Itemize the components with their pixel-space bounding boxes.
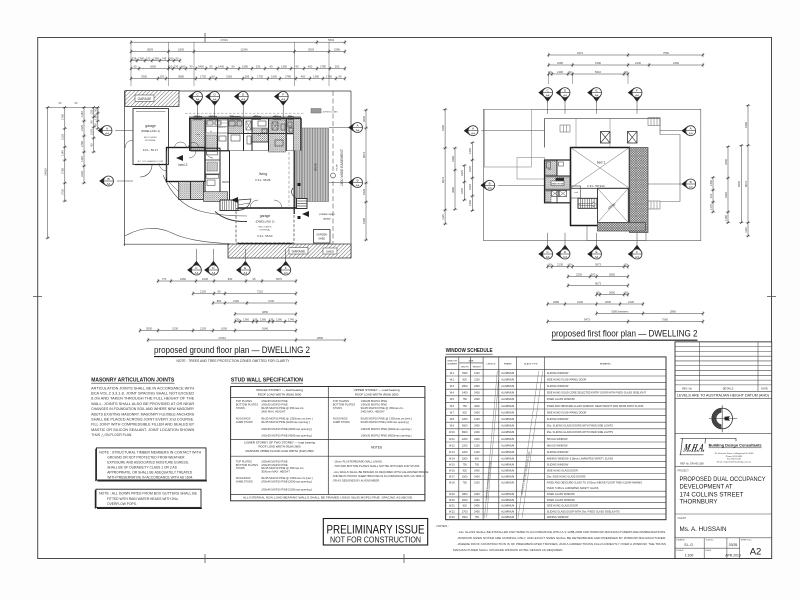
svg-text:OR AS DESIGNED BY AN ENGINEER.: OR AS DESIGNED BY AN ENGINEER.	[333, 478, 380, 482]
dimension line	[63, 106, 67, 202]
svg-text:90: 90	[569, 70, 572, 74]
svg-text:STUDS: STUDS	[236, 466, 245, 470]
svg-text:ALUMINIUM: ALUMINIUM	[501, 438, 514, 441]
svg-text:11340: 11340	[240, 47, 248, 51]
dimension line	[547, 53, 704, 57]
svg-text:MANUFACTURER SHALL UPGRADE WIN: MANUFACTURER SHALL UPGRADE WINDOW LINTEL…	[453, 548, 563, 552]
ground floor plan group	[44, 38, 369, 342]
svg-text:W.21.: W.21.	[449, 505, 456, 508]
svg-text:W.11.: W.11.	[449, 438, 456, 441]
svg-text:2850: 2850	[609, 272, 615, 276]
east wall band tiles	[294, 119, 302, 151]
svg-text:90: 90	[232, 64, 235, 68]
svg-text:3250: 3250	[724, 159, 728, 165]
svg-text:A4: A4	[212, 271, 216, 275]
skylight boxes	[601, 132, 611, 144]
svg-text:1200: 1200	[462, 418, 468, 421]
bathroom tiles	[269, 120, 286, 152]
svg-text:2130: 2130	[577, 300, 583, 304]
svg-text:1520: 1520	[90, 129, 94, 135]
svg-text:90: 90	[94, 108, 98, 111]
svg-text:2200: 2200	[576, 272, 582, 276]
svg-text:9473: 9473	[584, 317, 590, 321]
svg-text:1180: 1180	[724, 215, 728, 221]
landing walls	[557, 190, 571, 203]
svg-text:230: 230	[256, 64, 261, 68]
svg-text:W.17.: W.17.	[449, 476, 456, 479]
svg-text:DATE: DATE	[706, 549, 712, 552]
svg-text:5190: 5190	[362, 218, 366, 224]
svg-text:PROJECT: PROJECT	[678, 470, 690, 473]
svg-text:HEIGHT: HEIGHT	[473, 366, 482, 368]
svg-text:1/90x45 MGP10 PINE [3150max.op: 1/90x45 MGP10 PINE [3150max.opening.]	[261, 488, 312, 492]
svg-text:1000: 1000	[202, 277, 208, 281]
svg-text:1500: 1500	[474, 482, 480, 485]
svg-text:3720: 3720	[61, 189, 65, 195]
svg-text:ALUMINIUM: ALUMINIUM	[501, 499, 514, 502]
svg-text:1200: 1200	[474, 451, 480, 454]
svg-text:250: 250	[335, 64, 340, 68]
svg-text:BOTTOM PLATES: BOTTOM PLATES	[333, 402, 356, 406]
svg-text:PRELIMINARY ISSUE: PRELIMINARY ISSUE	[327, 523, 425, 537]
first floor hatched band east	[630, 148, 649, 233]
svg-text:2100: 2100	[474, 378, 480, 381]
svg-text:ALUMINIUM: ALUMINIUM	[501, 505, 514, 508]
bed1 ceiling diagonals	[571, 148, 630, 189]
svg-text:2460: 2460	[180, 277, 186, 281]
svg-text:5190: 5190	[595, 61, 601, 65]
svg-text:NOTE : STRUCTURAL TIMBER MEMBE: NOTE : STRUCTURAL TIMBER MEMBERS IN CONT…	[99, 450, 202, 454]
svg-text:1440: 1440	[468, 148, 472, 154]
svg-text:3680: 3680	[178, 74, 184, 78]
roof outline right	[660, 135, 680, 202]
svg-text:8073: 8073	[441, 177, 445, 183]
svg-text:proposed first floor plan — DW: proposed first floor plan — DWELLING 2	[552, 328, 698, 339]
svg-text:FILL JOINT WITH COMPRESSIBLE F: FILL JOINT WITH COMPRESSIBLE FILLER AND …	[91, 423, 195, 427]
svg-text:OVER. 5.38mm LAMINATED SAFETY: OVER. 5.38mm LAMINATED SAFETY GLASS	[547, 487, 599, 490]
small window ladders right	[648, 118, 660, 126]
svg-text:2130: 2130	[200, 289, 206, 293]
dimension line	[364, 109, 368, 241]
north point box	[675, 432, 772, 434]
section marker A4	[628, 88, 642, 114]
lower roof outline mid rect	[517, 158, 545, 180]
svg-text:3130: 3130	[172, 326, 178, 330]
fold mark bottom	[204, 554, 206, 563]
svg-text:A4: A4	[563, 255, 567, 259]
svg-text:1200: 1200	[474, 372, 480, 375]
svg-text:90x35 MGP10 PINE [1100max.open: 90x35 MGP10 PINE [1100max.opening.]	[261, 420, 310, 424]
garage 2 door line	[238, 243, 292, 245]
svg-text:1830 WIDE EASEMENT: 1830 WIDE EASEMENT	[340, 149, 344, 186]
logo box divider	[675, 465, 772, 467]
svg-text:3503: 3503	[308, 47, 314, 51]
svg-text:9473: 9473	[577, 51, 583, 55]
svg-text:OVERFLOW POPS.: OVERFLOW POPS.	[107, 502, 137, 506]
svg-text:ALUMINIUM: ALUMINIUM	[501, 378, 514, 381]
svg-text:1115: 1115	[441, 214, 445, 220]
svg-text:1730: 1730	[200, 74, 206, 78]
svg-text:5180: 5180	[242, 64, 248, 68]
svg-text:NOTE : TREES AND TREE PROTECTI: NOTE : TREES AND TREE PROTECTION ZONES O…	[177, 359, 291, 363]
service band partitions	[204, 119, 206, 151]
window ladder marks top wall	[194, 117, 202, 120]
svg-text:8073: 8073	[362, 152, 366, 158]
dimension line	[234, 312, 297, 316]
svg-text:E: E	[595, 250, 597, 254]
svg-text:A4: A4	[546, 94, 550, 98]
svg-text:bed 1: bed 1	[597, 161, 606, 165]
bottom shed label	[323, 248, 337, 254]
svg-text:2896: 2896	[317, 336, 323, 340]
dimension line	[546, 319, 704, 323]
svg-text:2400: 2400	[474, 438, 480, 441]
site bottom line west	[124, 243, 230, 245]
svg-text:5010: 5010	[595, 70, 601, 74]
svg-text:NOTES :: NOTES :	[437, 524, 450, 528]
pantry tiles	[228, 120, 244, 134]
svg-text:3450: 3450	[198, 64, 204, 68]
svg-text:WARDROBE: WARDROBE	[551, 183, 564, 186]
svg-text:8440: 8440	[737, 181, 741, 187]
svg-text:3880: 3880	[451, 187, 455, 193]
wardrobe label	[551, 181, 564, 186]
dimension line	[546, 302, 644, 306]
fold mark right	[767, 296, 776, 298]
bath fixture	[207, 180, 215, 186]
svg-text:Ms. A. HUSSAIN: Ms. A. HUSSAIN	[680, 526, 727, 533]
svg-text:750: 750	[463, 482, 468, 485]
section marker A4	[538, 88, 552, 114]
svg-text:750: 750	[463, 405, 468, 408]
svg-text:SLIDING WINDOW: SLIDING WINDOW	[547, 418, 569, 421]
title block bottom cells	[675, 538, 740, 559]
neighbour garage label	[135, 95, 154, 102]
north point symbol	[709, 405, 737, 432]
section marker A4	[98, 126, 112, 136]
svg-text:174 COLLINS STREET: 174 COLLINS STREET	[680, 491, 744, 498]
hall tile band	[204, 192, 228, 202]
svg-text:A4: A4	[213, 97, 217, 101]
fixtures small rects	[207, 121, 213, 125]
svg-text:2130: 2130	[635, 61, 641, 65]
svg-text:2600: 2600	[150, 64, 156, 68]
svg-text:1360: 1360	[281, 64, 287, 68]
svg-text:1380: 1380	[138, 56, 144, 60]
dimension line	[546, 264, 629, 268]
svg-text:W.7.: W.7.	[450, 411, 455, 414]
dimension line	[130, 76, 346, 80]
svg-text:3600: 3600	[462, 425, 468, 428]
dimension line	[567, 274, 629, 278]
bed2 window line	[166, 151, 168, 178]
easement dashed line	[332, 91, 334, 258]
svg-text:A4: A4	[689, 132, 693, 136]
svg-text:2400 MAX. HEIGHT: 2400 MAX. HEIGHT	[261, 409, 286, 413]
svg-text:GROUND OR NOT PROTECTED FROM W: GROUND OR NOT PROTECTED FROM WEATHER	[107, 455, 185, 459]
svg-text:B: B	[690, 180, 692, 184]
svg-text:ROOF LOAD WIDTH (RLW) 2600: ROOF LOAD WIDTH (RLW) 2600	[355, 393, 399, 397]
svg-text:THORNBURY: THORNBURY	[680, 499, 719, 506]
corridor cells right of bed2	[205, 148, 220, 196]
svg-text:GARAGE: GARAGE	[138, 97, 152, 101]
svg-text:285: 285	[245, 74, 250, 78]
window schedule table	[446, 357, 666, 520]
glass type diagonal note	[518, 371, 539, 518]
svg-text:1600: 1600	[271, 74, 277, 78]
svg-text:3673: 3673	[595, 263, 601, 267]
svg-text:2400: 2400	[474, 411, 480, 414]
fold mark bottom centre	[403, 554, 405, 563]
note box structural timber	[97, 448, 207, 480]
svg-text:1/90x35 MGP10 PINE [4500max.op: 1/90x35 MGP10 PINE [4500max.opening.]	[261, 433, 312, 437]
svg-text:ARTICULATION JOINTS SHALL BE I: ARTICULATION JOINTS SHALL BE IN ACCORDAN…	[91, 386, 195, 390]
svg-text:1825: 1825	[468, 166, 472, 172]
lower roof outline left rect	[484, 109, 531, 167]
svg-text:JAMB STUDS: JAMB STUDS	[333, 420, 350, 424]
svg-text:1500: 1500	[462, 457, 468, 460]
svg-text:JAMB STUDS: JAMB STUDS	[236, 420, 253, 424]
svg-text:ALUMINIUM: ALUMINIUM	[501, 516, 514, 519]
svg-text:ABUTS EXISTING MASONRY. MASONR: ABUTS EXISTING MASONRY. MASONRY FLEXIBLE…	[91, 412, 195, 416]
ensuite fixtures	[547, 162, 551, 168]
svg-text:2480: 2480	[451, 156, 455, 162]
svg-text:ALUMINIUM: ALUMINIUM	[501, 444, 514, 447]
section marker A4	[556, 233, 570, 259]
svg-text:ALUMINIUM: ALUMINIUM	[501, 470, 514, 473]
svg-text:A4: A4	[635, 94, 639, 98]
svg-text:A4: A4	[241, 97, 245, 101]
svg-text:F: F	[285, 266, 287, 270]
svg-text:2850: 2850	[609, 290, 615, 294]
svg-text:ALUMINIUM: ALUMINIUM	[501, 411, 514, 414]
svg-text:1/90x35 MGP10 PINE: 1/90x35 MGP10 PINE	[361, 402, 388, 406]
svg-text:1140: 1140	[80, 111, 84, 117]
svg-text:2780: 2780	[61, 168, 65, 174]
svg-text:NOGGINGS: NOGGINGS	[236, 476, 251, 480]
svg-text:F: F	[282, 93, 284, 97]
svg-text:W.20.: W.20.	[449, 499, 456, 502]
svg-text:F.F.L. 58.914: F.F.L. 58.914	[587, 184, 605, 188]
client box	[675, 537, 772, 539]
svg-text:120: 120	[146, 56, 151, 60]
svg-text:1280: 1280	[276, 317, 282, 321]
svg-text:4395: 4395	[441, 125, 445, 131]
svg-text:A4: A4	[563, 94, 567, 98]
section marker A4	[276, 249, 290, 275]
svg-text:4830: 4830	[362, 116, 366, 122]
dimension line	[96, 106, 100, 130]
dimension line	[212, 301, 297, 305]
dimension line	[192, 291, 297, 295]
landscape curve 2	[125, 228, 229, 243]
svg-text:ALUMINIUM: ALUMINIUM	[501, 457, 514, 460]
svg-text:STUMP: STUMP	[337, 163, 339, 171]
living south wall	[230, 207, 302, 209]
svg-text:REMARKS: REMARKS	[600, 362, 611, 365]
svg-text:450: 450	[301, 74, 306, 78]
svg-text:W.19.: W.19.	[449, 493, 456, 496]
svg-text:3300: 3300	[141, 74, 147, 78]
svg-text:NOTE : ALL DOWN PIPES FROM BOX: NOTE : ALL DOWN PIPES FROM BOX GUTTERS S…	[99, 492, 198, 496]
svg-text:2400: 2400	[474, 431, 480, 434]
svg-text:A4: A4	[196, 97, 200, 101]
svg-text:1825: 1825	[460, 188, 464, 194]
dimension line	[453, 147, 457, 211]
svg-text:81 Johnston Street, Collingwoo: 81 Johnston Street, Collingwood Vic 3066	[715, 452, 754, 455]
svg-text:space: space	[323, 217, 331, 221]
dimension line	[147, 338, 346, 342]
svg-text:2400: 2400	[474, 510, 480, 513]
svg-text:1440: 1440	[468, 200, 472, 206]
svg-text:FIXED GLASS WINDOW: FIXED GLASS WINDOW	[547, 499, 576, 502]
svg-text:WALL. JOINTS SHALL ALSO BE PRO: WALL. JOINTS SHALL ALSO BE PROVIDED AT O…	[91, 402, 195, 406]
svg-text:ALFRESCO ABV: ALFRESCO ABV	[323, 111, 339, 114]
svg-text:AWNING WINDOW: AWNING WINDOW	[547, 516, 569, 519]
svg-text:SHED: SHED	[326, 250, 335, 254]
svg-text:1/90x35 MGP10 PINE [4500max.op: 1/90x35 MGP10 PINE [4500max.opening.]	[361, 433, 412, 437]
revision table	[675, 342, 772, 392]
svg-text:W.18.: W.18.	[449, 482, 456, 485]
svg-text:ALUMINIUM: ALUMINIUM	[501, 405, 514, 408]
svg-text:GARDEN: GARDEN	[316, 234, 327, 237]
svg-text:2490: 2490	[673, 61, 679, 65]
svg-text:4430: 4430	[362, 189, 366, 195]
hall tiles	[252, 128, 268, 142]
dimension line	[92, 106, 96, 153]
double door arcs north	[175, 142, 187, 148]
stair arrow	[579, 202, 597, 207]
svg-text:2100: 2100	[462, 499, 468, 502]
svg-text:90: 90	[218, 289, 221, 293]
svg-text:1/90x35 MGP10 PINE: 1/90x35 MGP10 PINE	[261, 402, 288, 406]
svg-text:LINTELS: LINTELS	[487, 363, 496, 365]
svg-text:Fax 9419 5475: Fax 9419 5475	[727, 459, 742, 461]
svg-text:ALUMINIUM: ALUMINIUM	[501, 385, 514, 388]
svg-text:BENCH: BENCH	[218, 127, 226, 129]
svg-text:B: B	[356, 179, 358, 183]
living area outline	[229, 151, 231, 208]
ground floor title underline	[154, 356, 310, 358]
first floor site boundary	[484, 109, 701, 240]
svg-text:APPROPRIATE, OR SHALL BE ADEQU: APPROPRIATE, OR SHALL BE ADEQUATELY TREA…	[107, 471, 193, 475]
svg-text:W.3.: W.3.	[450, 385, 455, 388]
dimension line	[157, 279, 297, 283]
mha logo	[682, 442, 707, 455]
svg-text:2780: 2780	[61, 114, 65, 120]
small window ladder top	[560, 125, 570, 132]
upper floor dashed line over living	[288, 152, 290, 206]
svg-text:2No. SLIDING GLASS DOORS WITH: 2No. SLIDING GLASS DOORS WITH FIXED SIDE…	[547, 431, 614, 434]
wir dots	[207, 162, 218, 171]
svg-text:A4: A4	[546, 255, 550, 259]
svg-text:EXPOSURE AND ASSOCIATED MOISTU: EXPOSURE AND ASSOCIATED MOISTURE EGRESS,	[107, 460, 189, 464]
svg-text:748: 748	[162, 56, 167, 60]
bath label box	[206, 175, 219, 178]
svg-text:GLASS TYPE: GLASS TYPE	[524, 362, 538, 365]
svg-text:2780: 2780	[285, 74, 291, 78]
svg-text:2400 MAX. HEIGHT: 2400 MAX. HEIGHT	[361, 409, 386, 413]
svg-text:ALUMINIUM: ALUMINIUM	[501, 398, 514, 401]
svg-text:LEVELS ARE TO AUSTRALIAN HEIGH: LEVELS ARE TO AUSTRALIAN HEIGHT DATUM (A…	[677, 394, 769, 398]
svg-text:1200: 1200	[462, 438, 468, 441]
svg-text:A4: A4	[281, 97, 285, 101]
svg-text:3000mm MAX. HEIGHT: 3000mm MAX. HEIGHT	[261, 470, 290, 474]
svg-text:A4: A4	[195, 271, 199, 275]
svg-text:1380: 1380	[153, 56, 159, 60]
svg-text:FRAME: FRAME	[504, 362, 512, 365]
laundry tiles	[192, 120, 205, 150]
svg-text:F: F	[636, 89, 638, 93]
svg-text:90x35 MGP10 PINE @ 1350max.crs: 90x35 MGP10 PINE @ 1350max.crs.[vert.]	[261, 476, 313, 480]
svg-text:6570: 6570	[276, 277, 282, 281]
svg-text:5080 between: 5080 between	[612, 309, 629, 313]
svg-text:hall: hall	[257, 135, 261, 137]
svg-text:7210: 7210	[257, 289, 263, 293]
svg-text:PROPOSED DUAL OCCUPANCY: PROPOSED DUAL OCCUPANCY	[680, 476, 767, 483]
wardrobe tiles	[546, 177, 570, 189]
border frame	[38, 38, 772, 559]
svg-text:W.12.: W.12.	[449, 444, 456, 447]
dimension line	[711, 176, 715, 213]
svg-text:250: 250	[160, 74, 165, 78]
svg-text:deck: deck	[314, 163, 318, 170]
clothesline symbol	[331, 173, 336, 178]
tile rooms below bed2	[179, 182, 191, 200]
svg-text:B: B	[489, 181, 491, 185]
svg-text:820: 820	[463, 378, 468, 381]
svg-text:8073: 8073	[595, 281, 601, 285]
robe label box	[556, 178, 565, 181]
svg-text:living: living	[259, 172, 267, 176]
svg-text:BCA VOL.2 3.3.1.8. JOINT SPACI: BCA VOL.2 3.3.1.8. JOINT SPACING SHALL N…	[91, 392, 195, 396]
robe label box	[207, 152, 218, 155]
svg-text:SHEET No.: SHEET No.	[741, 540, 753, 542]
svg-text:A4: A4	[105, 131, 109, 135]
svg-text:250: 250	[90, 109, 94, 114]
svg-text:A4: A4	[595, 94, 599, 98]
svg-text:820: 820	[463, 505, 468, 508]
svg-text:ALUMINIUM: ALUMINIUM	[501, 451, 514, 454]
svg-text:90: 90	[134, 64, 137, 68]
dimension line	[443, 108, 447, 225]
svg-text:2125: 2125	[61, 134, 65, 140]
svg-text:INTERNAL: INTERNAL	[260, 228, 272, 231]
svg-text:90: 90	[210, 64, 213, 68]
bottom garage label	[289, 248, 308, 255]
svg-text:SLIDING GLASS DOOR WITH 2No. F: SLIDING GLASS DOOR WITH 2No. FIXED GLASS…	[547, 510, 620, 513]
svg-text:A2: A2	[750, 547, 762, 558]
section marker A4	[205, 92, 219, 118]
living east wall double line	[293, 151, 295, 214]
svg-text:90: 90	[94, 123, 98, 126]
svg-text:ALUMINIUM: ALUMINIUM	[501, 476, 514, 479]
svg-text:E: E	[244, 266, 246, 270]
dwelling 2 north wall	[189, 117, 301, 119]
svg-text:garage: garage	[145, 124, 156, 128]
svg-text:REF No. DR-AB 1368: REF No. DR-AB 1368	[680, 462, 704, 465]
svg-text:1500: 1500	[462, 476, 468, 479]
svg-text:90: 90	[549, 70, 552, 74]
svg-text:90: 90	[90, 143, 94, 146]
dimension line	[567, 283, 629, 287]
svg-text:90x35 MGP10 PINE @ 1350max.crs: 90x35 MGP10 PINE @ 1350max.crs.[vert.]	[361, 416, 413, 420]
svg-text:RELOCATED: RELOCATED	[258, 226, 272, 229]
dimension line	[547, 63, 704, 67]
svg-text:1115: 1115	[744, 227, 748, 233]
svg-text:W.16.: W.16.	[449, 470, 456, 473]
svg-text:90: 90	[253, 277, 256, 281]
